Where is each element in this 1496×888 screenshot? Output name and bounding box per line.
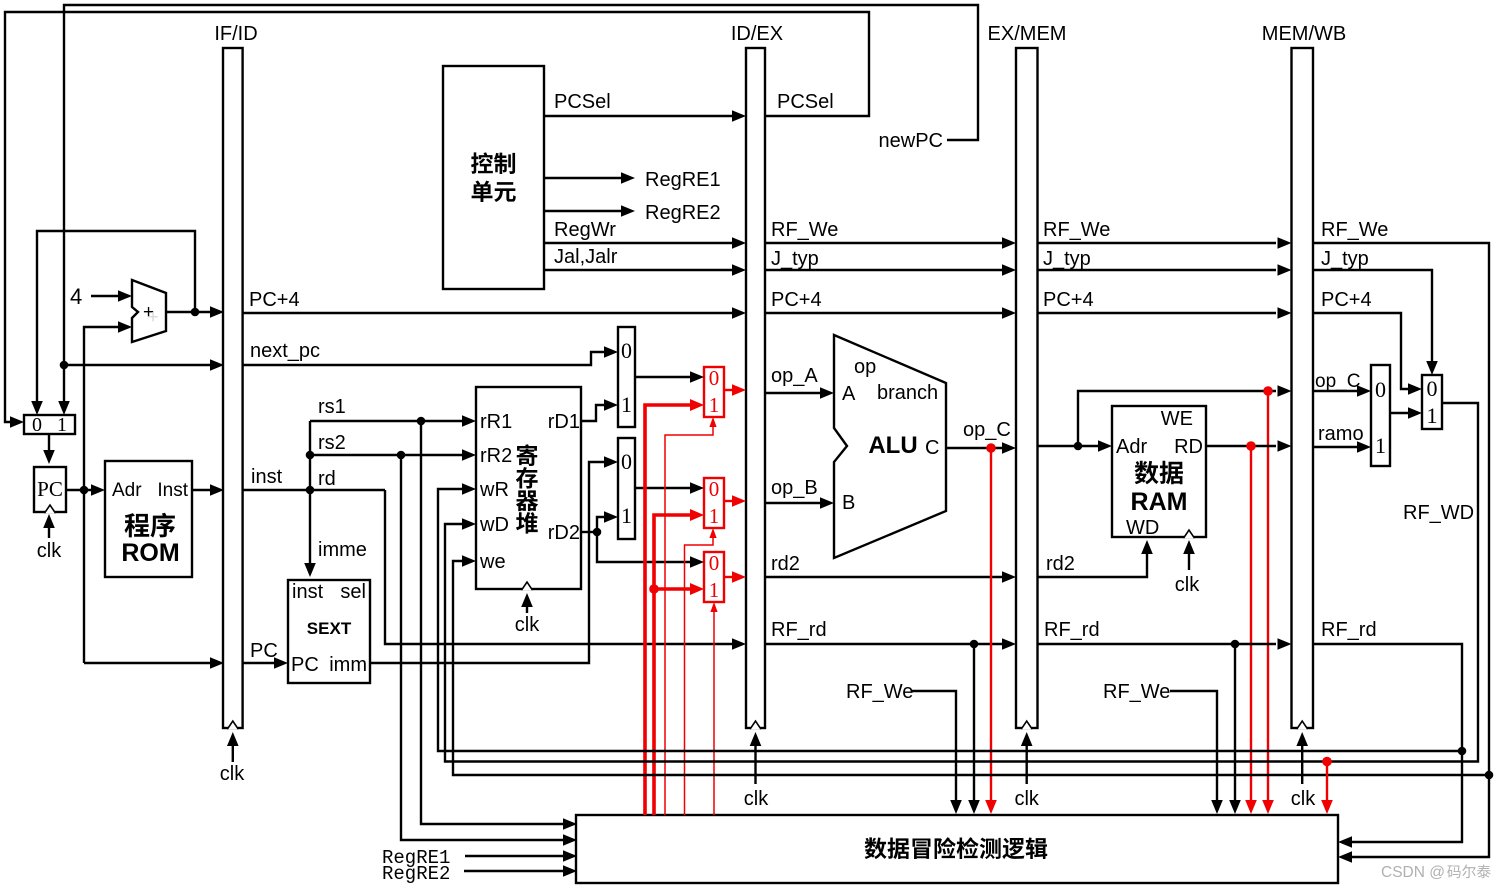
node op_C forward tap 2 (red)	[1263, 386, 1273, 396]
svg-text:RF_We: RF_We	[1043, 219, 1110, 241]
svg-text:rR2: rR2	[480, 445, 512, 467]
wire RegRE2 to hazard	[464, 870, 564, 872]
svg-text:op_C: op_C	[963, 419, 1011, 441]
svg-text:WD: WD	[1126, 517, 1159, 539]
wire op_C to hazard unit (red)	[990, 448, 992, 806]
data RAM	[1112, 406, 1206, 537]
svg-text:clk: clk	[515, 614, 540, 636]
wire RF_We writeback	[1313, 243, 1489, 775]
mux M6 PC+4/J_typ	[1422, 375, 1442, 429]
register file	[476, 387, 581, 589]
wire SEXT imm to mux M2	[370, 462, 605, 663]
svg-text:next_pc: next_pc	[250, 340, 320, 362]
wire mux M1 to MA	[635, 376, 691, 378]
wire Jal,Jalr to ID/EX	[544, 269, 732, 271]
SEXT sign-extender	[288, 580, 370, 683]
clock input of register file	[526, 599, 528, 613]
svg-text:rD2: rD2	[548, 522, 580, 544]
svg-text:0: 0	[621, 449, 632, 474]
wire rD2 out	[581, 531, 597, 533]
wire PC to ROM Adr	[66, 489, 94, 491]
wire op_C to mux M5	[1313, 390, 1358, 392]
clock input of RAM	[1188, 546, 1190, 570]
svg-text:RF_rd: RF_rd	[771, 619, 827, 641]
wire rd2 to RAM WD	[1038, 548, 1148, 577]
wire op_C to RAM Adr	[1038, 445, 1100, 447]
svg-text:CSDN @: CSDN @	[1381, 864, 1445, 881]
svg-text:clk: clk	[1175, 574, 1200, 596]
svg-text:clk: clk	[220, 763, 245, 785]
svg-text:1: 1	[709, 504, 720, 528]
control unit U_CTRL	[443, 66, 544, 289]
svg-text:RF_We: RF_We	[1321, 219, 1388, 241]
svg-text:PC: PC	[37, 477, 63, 501]
svg-text:rD1: rD1	[548, 411, 580, 433]
adder PLUS	[132, 280, 166, 342]
svg-text:RF_We: RF_We	[846, 681, 913, 703]
wire newPC loop	[64, 5, 978, 409]
wire rs2 to rR2	[310, 454, 465, 456]
node RF_We junction	[1485, 771, 1494, 780]
wire J_typ to mux M6 select	[1313, 270, 1432, 367]
svg-text:RegRE2: RegRE2	[382, 863, 450, 885]
svg-text:0: 0	[709, 366, 720, 390]
svg-text:RD: RD	[1174, 436, 1203, 458]
wire RF_We EX/MEM to MEM/WB	[1038, 242, 1277, 244]
svg-text:WE: WE	[1161, 408, 1193, 430]
wire RegRE1 to hazard	[465, 855, 564, 857]
wire forward data A (red)	[645, 405, 691, 815]
svg-text:RegRE2: RegRE2	[645, 202, 721, 224]
wire ramo to mux M5	[1313, 446, 1358, 448]
wire MA to ID/EX op_A	[724, 389, 732, 391]
wire RF_rd to hazard unit 2	[1234, 644, 1236, 806]
svg-text:B: B	[842, 492, 855, 514]
svg-text:1: 1	[1375, 433, 1386, 458]
pipeline register EX/MEM	[1016, 48, 1038, 728]
wire PCSel loop	[5, 12, 869, 422]
wire PC into IF/ID	[84, 662, 211, 664]
svg-text:RF_We: RF_We	[771, 219, 838, 241]
svg-text:RAM: RAM	[1131, 488, 1188, 516]
svg-text:rR1: rR1	[480, 411, 512, 433]
wire mux M0 to PC	[48, 434, 50, 457]
node inst-rs2 junction	[306, 451, 315, 460]
wire op_B to ALU	[765, 502, 821, 504]
svg-text:J_typ: J_typ	[1321, 248, 1369, 270]
svg-text:0: 0	[621, 338, 632, 363]
svg-text:Jal,Jalr: Jal,Jalr	[554, 246, 618, 268]
wire adder output PC+4 to IF/ID	[166, 311, 211, 313]
svg-text:rd: rd	[318, 468, 336, 490]
pipeline register MEM/WB	[1292, 48, 1314, 728]
hazard detection unit	[576, 815, 1338, 883]
svg-text:clk: clk	[1014, 788, 1039, 810]
node RD forward tap (red)	[1246, 441, 1256, 451]
svg-text:clk: clk	[37, 540, 62, 562]
wire PC+4 EX/MEM to MEM/WB	[1038, 312, 1277, 314]
node PC+4 junction	[191, 308, 200, 317]
wire rs2 to hazard unit	[401, 455, 564, 840]
forward mux MB op_B	[704, 478, 724, 528]
svg-text:PCSel: PCSel	[777, 91, 834, 113]
svg-text:newPC: newPC	[879, 130, 943, 152]
node RF_rd junction	[1458, 747, 1467, 756]
svg-text:PC+4: PC+4	[1321, 289, 1372, 311]
svg-text:wR: wR	[479, 479, 509, 501]
wire op_C to hazard unit 2 (red)	[1267, 391, 1269, 806]
clock input of EX/MEM	[1025, 738, 1027, 784]
wire next_pc into IF/ID	[64, 364, 211, 366]
svg-text:ALU: ALU	[868, 432, 917, 459]
node next_pc junction	[60, 361, 69, 370]
forward mux MC rd2	[704, 552, 724, 602]
program ROM	[105, 461, 192, 577]
svg-text:+: +	[147, 307, 158, 328]
wire PC to adder	[84, 327, 121, 663]
wire forward select C (red)	[713, 610, 715, 815]
wire PC IF/ID to SEXT	[243, 662, 275, 664]
node PC output junction	[80, 486, 89, 495]
svg-text:1: 1	[709, 393, 720, 417]
svg-text:1: 1	[1427, 403, 1438, 428]
svg-text:sel: sel	[340, 581, 366, 603]
svg-text:1: 1	[621, 503, 632, 528]
svg-text:RF_rd: RF_rd	[1044, 619, 1100, 641]
node Adr junction	[1074, 442, 1083, 451]
svg-text:IF/ID: IF/ID	[214, 23, 257, 45]
node RF_WD forward tap (red)	[1322, 757, 1332, 767]
wire J_typ ID/EX to EX/MEM	[765, 269, 1005, 271]
wire RegRE2 output	[544, 210, 622, 212]
svg-text:PC: PC	[250, 640, 278, 662]
wire inst vertical tap	[309, 421, 311, 490]
svg-text:1: 1	[621, 392, 632, 417]
ALU	[834, 335, 946, 558]
wire forward data C branch (red)	[654, 587, 691, 591]
svg-text:Adr: Adr	[112, 480, 142, 501]
wire constant 4 into adder	[91, 295, 121, 297]
svg-text:imm: imm	[329, 654, 367, 676]
svg-text:PC+4: PC+4	[771, 289, 822, 311]
svg-text:EX/MEM: EX/MEM	[988, 23, 1067, 45]
svg-text:RegWr: RegWr	[554, 219, 616, 241]
svg-text:op_C: op_C	[1315, 371, 1360, 392]
svg-text:1: 1	[709, 578, 720, 602]
wire RD to hazard unit (red)	[1250, 446, 1252, 806]
svg-text:C: C	[925, 437, 939, 459]
pipeline register ID/EX	[746, 48, 765, 728]
wire RegRE1 output	[544, 177, 622, 179]
wire RF_rd to hazard unit	[973, 644, 975, 806]
PC register	[34, 467, 66, 512]
svg-text:0: 0	[1375, 377, 1386, 402]
wire PC+4 ID/EX to EX/MEM	[765, 312, 1005, 314]
svg-text:rd2: rd2	[1046, 553, 1075, 575]
mux M1 next_pc/rD1	[618, 327, 635, 427]
wire MC to ID/EX rd2	[724, 576, 732, 578]
wire RF_rd writeback	[1313, 644, 1462, 751]
wire RF_rd ID/EX to EX/MEM	[765, 643, 1005, 645]
wire RF_rd EX/MEM to MEM/WB	[1038, 643, 1277, 645]
svg-text:PC: PC	[291, 654, 319, 676]
wire PC+4 IF/ID to ID/EX	[243, 312, 732, 314]
wire RegWr to ID/EX	[544, 242, 732, 244]
wire RAM RD to MEM/WB	[1206, 445, 1276, 447]
wire rd2 ID/EX to EX/MEM	[765, 576, 1005, 578]
svg-text:MEM/WB: MEM/WB	[1262, 23, 1346, 45]
svg-text:J_typ: J_typ	[771, 248, 819, 270]
node inst-rd junction	[306, 486, 315, 495]
node rs1 junction	[417, 417, 426, 426]
clock input of MEM/WB	[1301, 738, 1303, 784]
wire forward select A (red)	[665, 425, 713, 815]
wire mux M5 to mux M6	[1390, 412, 1409, 414]
svg-text:J_typ: J_typ	[1043, 248, 1091, 270]
svg-text:PC+4: PC+4	[249, 289, 300, 311]
svg-text:0: 0	[709, 477, 720, 501]
mux M2 imm/rD2	[618, 438, 635, 539]
svg-text:0: 0	[32, 414, 42, 436]
wire RF_We ID/EX to EX/MEM	[765, 242, 1005, 244]
wire inst bus	[243, 489, 385, 491]
wire RF_rd to hazard (right)	[1351, 751, 1462, 842]
wire J_typ EX/MEM to MEM/WB	[1038, 269, 1277, 271]
svg-text:4: 4	[70, 284, 82, 309]
svg-text:op_B: op_B	[771, 477, 818, 499]
wire rs1 to hazard unit	[421, 421, 564, 824]
wire MB to ID/EX op_B	[724, 500, 732, 502]
mux M5 op_C/ramo	[1371, 365, 1390, 466]
svg-text:inst: inst	[292, 581, 324, 603]
wire PC+4 loopback to mux M0	[37, 231, 195, 409]
wire forward data B (red)	[654, 515, 691, 815]
svg-text:op: op	[854, 356, 876, 378]
svg-text:0: 0	[1427, 376, 1438, 401]
svg-text:Inst: Inst	[157, 480, 188, 501]
clock input of IF/ID	[232, 738, 234, 762]
mux M0 PC-select	[24, 415, 75, 434]
wire next_pc to mux M1	[243, 352, 605, 365]
wire RF_WD writeback	[445, 403, 1478, 762]
wire PC+4 to mux M6	[1313, 313, 1409, 389]
svg-text:branch: branch	[877, 382, 938, 404]
wire inst ROM to IF/ID	[192, 489, 211, 491]
svg-text:SEXT: SEXT	[307, 619, 352, 638]
svg-text:ROM: ROM	[121, 539, 179, 567]
wire PCSel control to ID/EX	[544, 115, 732, 117]
svg-text:Adr: Adr	[1116, 436, 1147, 458]
svg-text:ID/EX: ID/EX	[731, 23, 783, 45]
clock input of ID/EX	[754, 738, 756, 784]
svg-text:ramo: ramo	[1318, 423, 1364, 445]
svg-text:clk: clk	[1291, 788, 1316, 810]
svg-text:RF_WD: RF_WD	[1403, 502, 1474, 524]
svg-text:A: A	[842, 383, 856, 405]
wire wR feedback	[438, 489, 1462, 751]
svg-text:imme: imme	[318, 539, 367, 561]
svg-text:RF_We: RF_We	[1103, 681, 1170, 703]
svg-text:op_A: op_A	[771, 365, 818, 387]
wire ALU C to EX/MEM	[946, 447, 1005, 449]
svg-text:rd2: rd2	[771, 553, 800, 575]
svg-text:rs2: rs2	[318, 432, 346, 454]
node RF_rd hazard tap	[970, 640, 979, 649]
svg-text:1: 1	[57, 414, 67, 436]
svg-text:rs1: rs1	[318, 396, 346, 418]
svg-text:PCSel: PCSel	[554, 91, 611, 113]
svg-text:we: we	[479, 551, 506, 573]
clock input of PC	[48, 520, 50, 538]
wire we feedback	[453, 561, 1489, 775]
wire rd to RF_rd into ID/EX	[385, 490, 732, 644]
node rs2 junction	[397, 451, 406, 460]
node rD2 junction	[593, 528, 602, 537]
wire mux M2 to MB	[635, 487, 691, 489]
wire rD1 to mux M1	[581, 405, 607, 421]
svg-text:0: 0	[709, 551, 720, 575]
forward mux MA op_A	[704, 367, 724, 417]
svg-text:PC+4: PC+4	[1043, 289, 1094, 311]
svg-text:wD: wD	[479, 514, 509, 536]
svg-text:inst: inst	[251, 466, 283, 488]
svg-text:RegRE1: RegRE1	[645, 169, 721, 191]
wire rD2 to MC	[597, 532, 691, 562]
svg-text:clk: clk	[744, 788, 769, 810]
wire RF_We to hazard (right)	[1351, 775, 1489, 857]
node op_C forward tap (red)	[986, 443, 996, 453]
svg-text:RF_rd: RF_rd	[1321, 619, 1377, 641]
pipeline register IF/ID	[223, 48, 243, 728]
node forward junction (red)	[649, 584, 659, 594]
wire rD2 to mux M2	[597, 517, 605, 532]
wire imme to SEXT	[309, 490, 311, 569]
wire op_C around RAM to MEM/WB	[1078, 391, 1276, 446]
node RF_rd hazard tap 2	[1231, 640, 1240, 649]
wire forward select B (red)	[685, 536, 714, 815]
wire op_A to ALU	[765, 392, 821, 394]
wire rs1 to rR1	[310, 420, 465, 422]
wire RF_WD to hazard (red)	[1326, 762, 1328, 807]
